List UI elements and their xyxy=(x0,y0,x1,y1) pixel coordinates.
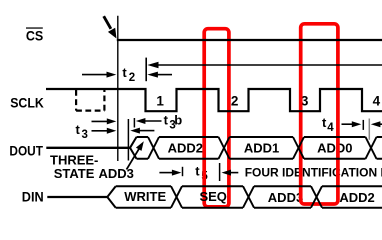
svg-text:WRITE: WRITE xyxy=(124,189,166,204)
svg-text:ADD3: ADD3 xyxy=(268,190,303,205)
svg-text:ADD2: ADD2 xyxy=(339,190,374,205)
svg-text:t: t xyxy=(195,164,200,179)
svg-text:t: t xyxy=(164,113,169,128)
svg-text:b: b xyxy=(174,113,182,128)
svg-text:2: 2 xyxy=(129,72,135,84)
svg-text:CS: CS xyxy=(26,29,43,44)
svg-text:DOUT: DOUT xyxy=(9,143,43,158)
svg-text:ADD1: ADD1 xyxy=(244,140,279,155)
svg-text:ADD2: ADD2 xyxy=(168,140,203,155)
svg-text:ADD3: ADD3 xyxy=(99,166,134,181)
svg-text:t: t xyxy=(122,65,127,80)
svg-text:STATE: STATE xyxy=(54,166,95,181)
svg-text:2: 2 xyxy=(231,93,239,108)
svg-text:3: 3 xyxy=(82,129,88,141)
svg-text:1: 1 xyxy=(156,93,164,108)
svg-text:SCLK: SCLK xyxy=(10,95,44,110)
svg-text:DIN: DIN xyxy=(22,190,44,205)
svg-text:4: 4 xyxy=(327,122,334,134)
svg-text:4: 4 xyxy=(373,93,381,108)
svg-text:ADD0: ADD0 xyxy=(317,140,352,155)
svg-text:t: t xyxy=(76,122,81,137)
svg-text:SEQ: SEQ xyxy=(199,189,226,204)
svg-text:FOUR IDENTIFICATION BITS: FOUR IDENTIFICATION BITS xyxy=(245,165,382,179)
